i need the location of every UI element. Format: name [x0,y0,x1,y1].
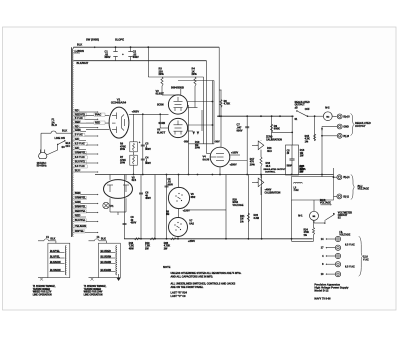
svg-text:REGULATED OUTPUT: REGULATED OUTPUT [264,168,287,171]
svg-text:SLOPE: SLOPE [115,38,124,42]
svg-text:BRN/YEL: BRN/YEL [75,206,86,209]
svg-text:UNLESS OTHERWISE STATED ALL RE: UNLESS OTHERWISE STATED ALL RESISTORS AR… [171,271,242,275]
svg-text:WIRED FOR 117V: WIRED FOR 117V [33,292,52,294]
svg-text:6AU6: 6AU6 [203,157,210,161]
svg-text:BLK: BLK [77,42,82,46]
svg-text:OFF: OFF [66,146,71,148]
svg-text:WIRED FOR 234V: WIRED FOR 234V [84,291,103,294]
svg-text:-30V: -30V [215,140,221,143]
svg-text:B(+)1: B(+)1 [343,176,350,179]
svg-text:RED: RED [95,122,100,125]
svg-text:SCRN: SCRN [157,104,164,106]
svg-text:20%: 20% [192,72,198,76]
svg-text:6L6GT: 6L6GT [157,130,166,134]
svg-text:6.3 V AC: 6.3 V AC [75,143,85,146]
svg-text:Model B-12: Model B-12 [314,288,329,292]
svg-text:6.3 V AC: 6.3 V AC [345,244,355,247]
svg-text:VOLTAGE: VOLTAGE [339,234,350,237]
svg-text:LINE ON: LINE ON [55,136,65,140]
svg-text:20%: 20% [120,148,126,151]
svg-text:VOLTAGE: VOLTAGE [233,204,244,207]
svg-text:20%: 20% [250,163,256,166]
svg-text:BLK: BLK [66,143,71,145]
svg-text:TRANSFORMER: TRANSFORMER [33,288,51,291]
svg-text:600V: 600V [168,184,174,186]
svg-text:T1 115/230V 50/60HZ,: T1 115/230V 50/60HZ, [84,286,107,288]
svg-text:5 V AC: 5 V AC [75,117,83,120]
svg-text:RED/YEL: RED/YEL [75,210,86,213]
svg-text:B(+)3: B(+)3 [343,115,350,118]
svg-text:5Z4: 5Z4 [132,178,137,182]
svg-text:BLU/YEL: BLU/YEL [50,256,61,258]
svg-text:BLU/YEL: BLU/YEL [75,219,86,222]
svg-text:RED: RED [75,121,80,124]
svg-text:CONTROL: CONTROL [265,172,276,174]
svg-text:GRN: GRN [75,201,81,204]
svg-text:+505V: +505V [132,110,140,114]
svg-text:GRN: GRN [75,129,81,132]
svg-text:BRN: BRN [75,192,81,195]
svg-text:6.3 V AC: 6.3 V AC [75,165,85,168]
svg-text:6.3 V AC: 6.3 V AC [345,265,355,268]
svg-text:0A2: 0A2 [189,222,194,226]
svg-text:600V: 600V [145,162,151,165]
svg-text:BLK/GRN: BLK/GRN [101,270,112,272]
svg-text:RD: RD [75,125,79,128]
svg-text:4.75K: 4.75K [224,103,231,106]
svg-text:RED: RED [75,215,80,218]
svg-text:TRANSFORMER: TRANSFORMER [84,288,102,291]
svg-text:RD: RD [75,110,79,113]
svg-text:VOLTAGE: VOLTAGE [320,201,331,204]
svg-text:YEL/GRN: YEL/GRN [75,225,86,228]
svg-text:BLU: BLU [75,170,80,173]
svg-text:SCRN: SCRN [159,123,166,125]
svg-text:BLU/RED: BLU/RED [101,251,112,253]
svg-text:B(-)1: B(-)1 [343,195,349,198]
svg-text:BLU/GRN: BLU/GRN [50,270,61,272]
svg-text:5684/350B: 5684/350B [171,85,184,89]
svg-text:46.5: 46.5 [266,165,271,168]
svg-text:20%: 20% [195,147,201,150]
svg-text:SW (330B): SW (330B) [86,38,99,42]
svg-text:RD/YEL: RD/YEL [75,230,84,233]
svg-text:470K: 470K [304,231,310,234]
svg-text:+400V: +400V [265,189,272,192]
svg-text:NAVY 73 8-66: NAVY 73 8-66 [314,297,331,301]
svg-text:7.0H: 7.0H [294,190,299,192]
svg-text:AND ALL CAPACITORS ARE IN MFD.: AND ALL CAPACITORS ARE IN MFD. [171,276,214,279]
svg-text:GN: GN [75,147,79,150]
svg-text:M-1: M-1 [298,215,303,218]
svg-text:T1 115/230V 50/60HZ,: T1 115/230V 50/60HZ, [33,286,56,288]
svg-text:NOTE: NOTE [163,265,171,269]
svg-text:±B: ±B [295,106,298,109]
svg-text:46.5: 46.5 [267,150,272,153]
svg-text:450V: 450V [145,197,151,200]
svg-text:5VAC: 5VAC [95,114,102,117]
svg-text:20%: 20% [120,162,126,165]
svg-text:+: + [122,52,124,56]
svg-text:450V: 450V [131,222,137,225]
svg-text:LINE OPERATION: LINE OPERATION [33,293,52,296]
svg-text:BLU/GRN: BLU/GRN [101,256,112,258]
svg-text:500P: 500P [287,166,293,168]
svg-text:3.3M: 3.3M [254,217,259,220]
svg-text:600K: 600K [274,127,280,131]
svg-text:600V: 600V [237,128,243,132]
svg-text:CALIBRATION: CALIBRATION [265,191,281,194]
svg-text:600V: 600V [145,148,151,151]
svg-text:BLK: BLK [50,238,55,241]
svg-text:45W: 45W [129,247,135,250]
svg-text:6M: 6M [166,214,169,216]
svg-text:RED/YEL: RED/YEL [75,113,86,116]
svg-text:OFF: OFF [305,108,310,111]
svg-text:50-60Hz: 50-60Hz [37,164,48,168]
svg-text:20%: 20% [159,72,165,76]
svg-text:BLU/YEL: BLU/YEL [75,161,86,164]
svg-text:B(-)3: B(-)3 [343,135,349,138]
svg-text:V AC: V AC [363,258,369,261]
svg-text:600V: 600V [133,55,139,59]
svg-text:+105V: +105V [231,151,238,154]
svg-text:ARE ON THE FRONT PANEL: ARE ON THE FRONT PANEL [171,286,204,289]
svg-text:CALIBRATION: CALIBRATION [266,138,282,141]
svg-text:BLK: BLK [62,129,67,133]
svg-text:+250V: +250V [188,240,195,243]
svg-text:LAST “C” C9: LAST “C” C9 [171,295,187,298]
svg-text:GZ34/5AR4: GZ34/5AR4 [111,100,127,104]
svg-text:6.3 V AC: 6.3 V AC [75,156,85,159]
svg-text:BIAS: BIAS [233,201,239,204]
svg-text:BLU/GRN: BLU/GRN [101,262,112,264]
svg-text:GN: GN [75,138,79,141]
svg-text:600V: 600V [105,55,111,59]
svg-text:GRN/YEL: GRN/YEL [75,152,86,155]
svg-text:GRN/YEL: GRN/YEL [75,197,86,200]
svg-text:BLK/YEL: BLK/YEL [50,251,61,253]
svg-text:M-2: M-2 [325,106,330,110]
svg-text:0B2: 0B2 [191,195,196,199]
svg-text:(+)BRN: (+)BRN [75,49,84,53]
svg-text:-50V: -50V [184,142,189,144]
svg-text:LINE OPERATION: LINE OPERATION [84,293,103,296]
svg-text:+150V: +150V [183,209,190,212]
svg-text:BLO: BLO [52,123,57,127]
svg-text:5 V AC: 5 V AC [75,134,83,137]
svg-text:BIAS: BIAS [320,199,326,202]
svg-text:GND: GND [343,126,349,129]
svg-text:BLK: BLK [101,238,106,241]
svg-text:BLK/GRN: BLK/GRN [50,262,61,264]
svg-text:+280V: +280V [230,164,237,167]
svg-text:BLK/WHT: BLK/WHT [77,61,89,65]
svg-text:R24: R24 [304,229,309,232]
svg-text:OUTPUT: OUTPUT [355,124,366,128]
svg-text:VOLTAGE: VOLTAGE [358,188,370,191]
